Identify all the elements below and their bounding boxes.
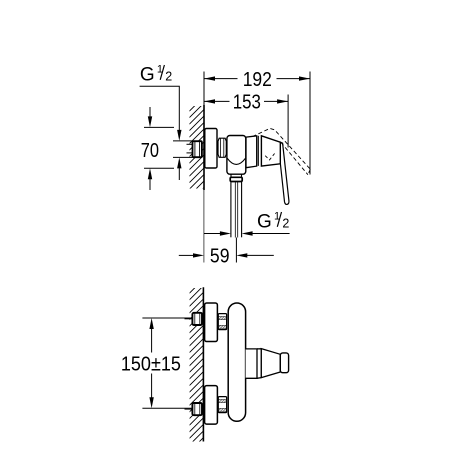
svg-text:153: 153 — [233, 92, 261, 114]
svg-text:G: G — [140, 65, 155, 86]
svg-text:150±15: 150±15 — [121, 353, 181, 375]
svg-text:192: 192 — [243, 69, 272, 91]
svg-text:59: 59 — [210, 245, 230, 267]
svg-text:G: G — [257, 212, 272, 233]
svg-text:2: 2 — [165, 69, 172, 83]
svg-text:2: 2 — [282, 216, 289, 230]
svg-text:70: 70 — [141, 140, 159, 162]
